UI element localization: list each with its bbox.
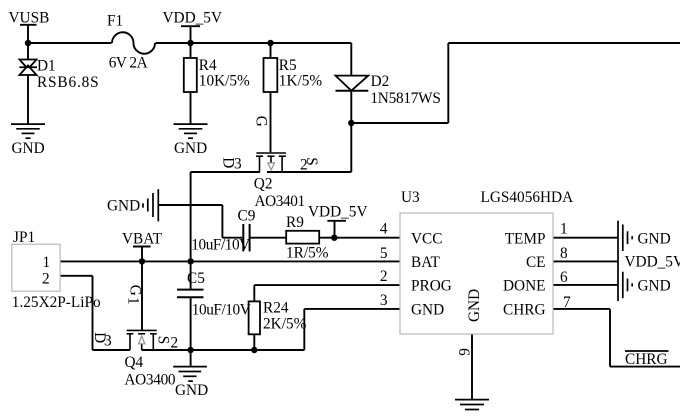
svg-text:VDD_5V: VDD_5V	[625, 254, 680, 271]
svg-text:3: 3	[234, 156, 242, 173]
svg-text:1R/5%: 1R/5%	[286, 245, 329, 262]
svg-text:CHRG: CHRG	[625, 351, 668, 368]
svg-text:GND: GND	[638, 231, 671, 248]
svg-text:2: 2	[171, 335, 179, 352]
svg-text:10uF/10V: 10uF/10V	[192, 302, 251, 319]
svg-text:GND: GND	[12, 140, 45, 157]
svg-text:GND: GND	[411, 302, 444, 319]
svg-text:VBAT: VBAT	[122, 231, 163, 248]
svg-text:2K/5%: 2K/5%	[263, 316, 307, 333]
svg-text:7: 7	[563, 294, 571, 311]
svg-text:1.25X2P-LiPo: 1.25X2P-LiPo	[12, 294, 101, 311]
svg-text:RSB6.8S: RSB6.8S	[37, 74, 100, 91]
svg-text:6: 6	[560, 269, 568, 286]
svg-text:5: 5	[380, 245, 388, 262]
svg-text:D1: D1	[37, 58, 56, 75]
svg-text:TEMP: TEMP	[505, 231, 546, 248]
svg-text:R4: R4	[199, 57, 217, 74]
svg-text:VDD_5V: VDD_5V	[308, 204, 368, 221]
svg-text:GND: GND	[174, 140, 207, 157]
svg-text:BAT: BAT	[411, 254, 441, 271]
svg-text:1: 1	[124, 297, 141, 305]
svg-text:10K/5%: 10K/5%	[199, 73, 250, 90]
svg-text:C5: C5	[187, 270, 205, 287]
svg-text:Q2: Q2	[254, 176, 273, 193]
svg-text:D2: D2	[371, 73, 390, 90]
svg-text:1K/5%: 1K/5%	[279, 73, 323, 90]
svg-text:R5: R5	[279, 57, 297, 74]
svg-text:S: S	[155, 336, 172, 345]
svg-text:8: 8	[560, 245, 568, 262]
svg-text:4: 4	[380, 220, 388, 237]
svg-text:G: G	[252, 116, 269, 127]
svg-text:S: S	[303, 157, 320, 166]
svg-text:Q4: Q4	[125, 354, 144, 371]
svg-text:JP1: JP1	[13, 229, 35, 246]
svg-text:2: 2	[42, 271, 50, 288]
svg-text:6V 2A: 6V 2A	[109, 55, 148, 72]
svg-text:GND: GND	[638, 278, 671, 295]
svg-text:PROG: PROG	[411, 278, 452, 295]
svg-text:R24: R24	[263, 300, 289, 317]
svg-text:AO3400: AO3400	[124, 372, 176, 389]
svg-text:G: G	[127, 285, 144, 296]
svg-text:CE: CE	[526, 254, 546, 271]
svg-text:AO3401: AO3401	[255, 193, 305, 210]
svg-text:3: 3	[104, 333, 112, 350]
svg-text:9: 9	[456, 348, 473, 356]
svg-text:10uF/10V: 10uF/10V	[191, 236, 250, 253]
svg-text:DONE: DONE	[503, 278, 546, 295]
svg-text:C9: C9	[238, 208, 256, 225]
svg-text:2: 2	[380, 268, 388, 285]
svg-text:3: 3	[380, 292, 388, 309]
svg-text:VUSB: VUSB	[9, 9, 50, 26]
svg-text:1: 1	[43, 254, 51, 271]
svg-text:LGS4056HDA: LGS4056HDA	[481, 189, 574, 206]
svg-text:GND: GND	[175, 382, 208, 399]
svg-text:R9: R9	[286, 214, 304, 231]
svg-text:CHRG: CHRG	[503, 302, 546, 319]
svg-text:GND: GND	[466, 289, 483, 322]
svg-text:GND: GND	[107, 198, 140, 215]
svg-text:F1: F1	[107, 13, 123, 30]
svg-text:1N5817WS: 1N5817WS	[370, 90, 440, 107]
svg-text:VDD_5V: VDD_5V	[163, 10, 223, 27]
svg-text:1: 1	[560, 221, 568, 238]
svg-text:U3: U3	[401, 189, 420, 206]
svg-text:VCC: VCC	[411, 231, 442, 248]
